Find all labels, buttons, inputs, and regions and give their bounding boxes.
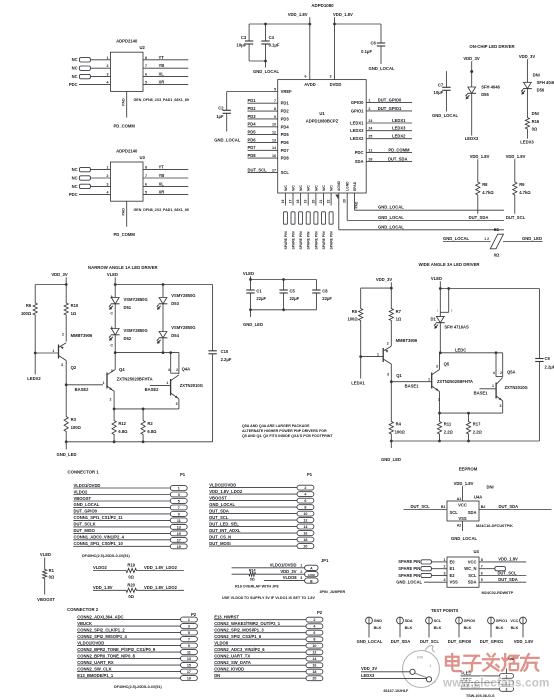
svg-text:28: 28 bbox=[368, 157, 372, 161]
svg-text:E2: E2 bbox=[450, 573, 456, 578]
svg-text:R12: R12 bbox=[118, 421, 126, 426]
photodiode array U3 ADPD2140 bbox=[69, 149, 189, 238]
svg-text:VDD_3V: VDD_3V bbox=[280, 569, 296, 574]
U1 pin 22 N/C spare bbox=[327, 185, 334, 250]
svg-text:10μF: 10μF bbox=[237, 43, 247, 48]
U1 pin 27 SCL bbox=[248, 168, 290, 176]
svg-text:4: 4 bbox=[107, 81, 109, 85]
svg-text:R7: R7 bbox=[396, 309, 402, 314]
svg-text:NC: NC bbox=[72, 57, 78, 62]
svg-text:8: 8 bbox=[481, 558, 483, 562]
P2 pin 13 CONN2_BPR0_TONE_N/P0_8 bbox=[77, 653, 197, 661]
svg-text:D56: D56 bbox=[537, 87, 545, 92]
svg-text:4.7kΩ: 4.7kΩ bbox=[482, 190, 494, 195]
P2 pin 1 CONN2_ADXL364_ADC bbox=[77, 614, 197, 622]
svg-text:CONN2_ADXL364_ADC: CONN2_ADXL364_ADC bbox=[77, 614, 123, 619]
svg-text:21: 21 bbox=[319, 200, 323, 204]
wire LEDC rail bbox=[440, 347, 503, 353]
svg-text:7: 7 bbox=[481, 565, 483, 569]
ferrite E1 0ohm GND_LOCAL-GND_LED bbox=[443, 227, 543, 257]
resistor R1 0ohm VLED to VBOOST bbox=[37, 552, 55, 602]
svg-text:5: 5 bbox=[145, 190, 147, 194]
svg-text:3: 3 bbox=[444, 572, 446, 576]
svg-text:VSMY2850G: VSMY2850G bbox=[171, 325, 195, 330]
svg-text:NC: NC bbox=[72, 167, 78, 172]
svg-text:6: 6 bbox=[313, 631, 315, 635]
svg-text:AGND: AGND bbox=[337, 180, 341, 191]
wire cap bank bottom rail bbox=[251, 309, 317, 311]
svg-text:N/C: N/C bbox=[291, 185, 295, 191]
svg-text:LEDC: LEDC bbox=[455, 347, 466, 352]
svg-text:SFH 4046: SFH 4046 bbox=[537, 80, 554, 85]
svg-text:22μF: 22μF bbox=[290, 296, 300, 301]
svg-text:DNI: DNI bbox=[487, 485, 494, 490]
svg-text:VBUCK: VBUCK bbox=[77, 621, 92, 626]
P2 pin 18 CONN2_IOVDD bbox=[214, 667, 323, 675]
svg-text:DUT_SDA: DUT_SDA bbox=[391, 639, 411, 644]
svg-text:C4: C4 bbox=[269, 35, 275, 40]
svg-text:R19: R19 bbox=[127, 563, 135, 568]
svg-text:E1: E1 bbox=[450, 566, 456, 571]
svg-text:GND_LOCAL: GND_LOCAL bbox=[432, 113, 458, 118]
svg-text:E1: E1 bbox=[494, 227, 500, 232]
P1 pin 15 DUT_MISO bbox=[73, 528, 187, 536]
svg-text:VSMY2850G: VSMY2850G bbox=[171, 293, 195, 298]
eeprom U4A M24C16 (DNI) bbox=[404, 481, 552, 541]
resistor R11 2.2ohm bbox=[437, 413, 453, 441]
P1 pin 18 DUT_CS_N bbox=[209, 534, 314, 542]
svg-text:2: 2 bbox=[313, 618, 315, 622]
svg-text:DUT_GPIO0: DUT_GPIO0 bbox=[378, 98, 402, 103]
svg-text:2.2μF: 2.2μF bbox=[221, 357, 232, 362]
svg-text:BLK: BLK bbox=[374, 626, 382, 630]
svg-text:3: 3 bbox=[107, 73, 109, 77]
svg-text:C5: C5 bbox=[290, 288, 296, 293]
svg-text:0Ω: 0Ω bbox=[532, 126, 538, 131]
svg-text:Q1: Q1 bbox=[396, 373, 402, 378]
svg-text:SPARE PIN: SPARE PIN bbox=[299, 231, 303, 250]
U1 pin 1 GPIO0 -> DUT_GPIO0 bbox=[351, 98, 412, 106]
svg-text:VDD_1.8V: VDD_1.8V bbox=[506, 154, 526, 159]
svg-text:LEDX2: LEDX2 bbox=[350, 136, 364, 141]
svg-text:GND_LED: GND_LED bbox=[381, 457, 401, 462]
P1 pin 2 VLDO1/OVDD bbox=[209, 482, 314, 490]
svg-text:26: 26 bbox=[343, 199, 347, 203]
svg-text:GND_LOCAL: GND_LOCAL bbox=[451, 536, 477, 541]
svg-text:GND_LOCAL: GND_LOCAL bbox=[357, 639, 383, 644]
svg-text:R17: R17 bbox=[473, 422, 481, 427]
transistor Q4 ZXTN25020BFHTA NPN bbox=[103, 353, 153, 409]
transistor Q5 ZXTN25020BFHTA NPN bbox=[428, 353, 473, 413]
svg-text:GPIO1: GPIO1 bbox=[496, 619, 508, 623]
svg-text:SPARE PIN: SPARE PIN bbox=[284, 231, 288, 250]
P1 pin 16 DUT_INT_ADXL bbox=[209, 528, 314, 536]
svg-text:13: 13 bbox=[272, 138, 276, 142]
svg-text:CONN2_BPR0_TONE_N/P0_8: CONN2_BPR0_TONE_N/P0_8 bbox=[77, 653, 135, 658]
svg-text:1: 1 bbox=[107, 166, 109, 170]
resistor R12 6.8ohm bbox=[112, 409, 128, 442]
svg-text:GND_LED: GND_LED bbox=[243, 322, 263, 327]
svg-text:CONN2_SPI2_CS3/P1_6: CONN2_SPI2_CS3/P1_6 bbox=[214, 634, 262, 639]
svg-text:2.2Ω: 2.2Ω bbox=[444, 430, 454, 435]
svg-text:9: 9 bbox=[188, 644, 190, 648]
ground GND_LOCAL (C3/C4) bbox=[253, 61, 279, 74]
svg-text:PD2: PD2 bbox=[248, 106, 257, 111]
svg-text:2: 2 bbox=[438, 398, 440, 402]
svg-text:20: 20 bbox=[311, 200, 315, 204]
svg-text:DVDD: DVDD bbox=[330, 82, 342, 87]
svg-text:1: 1 bbox=[166, 381, 168, 385]
svg-text:VDD_1.8V: VDD_1.8V bbox=[454, 481, 474, 486]
svg-text:VLED: VLED bbox=[431, 276, 442, 281]
svg-text:PD3: PD3 bbox=[281, 116, 290, 121]
svg-text:CONNECTOR 2: CONNECTOR 2 bbox=[67, 607, 99, 612]
svg-text:2: 2 bbox=[176, 368, 178, 372]
capacitor C2 1uF on VREF bbox=[216, 92, 231, 132]
svg-text:CONN2_BPR2_TONE_P/SPI2_CS1/P0_: CONN2_BPR2_TONE_P/SPI2_CS1/P0_9 bbox=[77, 647, 156, 652]
svg-text:ADPD2140: ADPD2140 bbox=[116, 39, 138, 44]
svg-text:DUT_SCL: DUT_SCL bbox=[209, 515, 229, 520]
svg-text:N/C: N/C bbox=[330, 185, 334, 191]
svg-text:NC: NC bbox=[72, 66, 78, 71]
jumper pads across D1 bbox=[437, 289, 453, 313]
LED D1 SFH 4716AS bbox=[431, 316, 470, 352]
svg-text:6.8Ω: 6.8Ω bbox=[118, 429, 128, 434]
svg-text:24: 24 bbox=[368, 127, 372, 131]
svg-text:2: 2 bbox=[444, 565, 446, 569]
P2 pin 14 CONN2_UART_TX bbox=[214, 654, 323, 662]
svg-text:2: 2 bbox=[107, 64, 109, 68]
svg-text:9: 9 bbox=[178, 512, 180, 516]
U1 pin 5 VREF bbox=[227, 87, 292, 94]
svg-text:ADPD1080: ADPD1080 bbox=[311, 3, 334, 8]
junction bbox=[308, 23, 311, 26]
svg-text:WC_N: WC_N bbox=[464, 566, 476, 571]
test point VCC bbox=[510, 617, 533, 644]
svg-text:PD2: PD2 bbox=[281, 109, 290, 114]
svg-text:PD6: PD6 bbox=[248, 137, 257, 142]
svg-text:0.1μF: 0.1μF bbox=[361, 49, 372, 54]
svg-text:ON-CHIP LED DRIVER: ON-CHIP LED DRIVER bbox=[469, 44, 515, 49]
LED D54 VSMY2850G bbox=[157, 325, 196, 352]
svg-text:CONN2_UART_TX: CONN2_UART_TX bbox=[214, 654, 250, 659]
svg-text:0Ω: 0Ω bbox=[494, 252, 500, 257]
P2 pin 10 VLDO8 bbox=[214, 641, 323, 649]
P1 pin 10 DUT_SDA bbox=[209, 508, 314, 516]
svg-text:100Ω: 100Ω bbox=[71, 425, 82, 430]
P1 pin 8 GND_LOCAL bbox=[209, 502, 314, 510]
svg-text:VDD_1.8V: VDD_1.8V bbox=[333, 12, 353, 17]
svg-text:BLK: BLK bbox=[405, 626, 413, 630]
svg-text:DUT_SDA: DUT_SDA bbox=[498, 577, 518, 582]
U1 pin 21 N/C spare bbox=[319, 185, 326, 250]
P1 pin 4 VDD_1.8V_LDO2 bbox=[209, 489, 314, 497]
svg-text:1: 1 bbox=[368, 99, 370, 103]
wire AGND to GND_LOCAL bbox=[339, 224, 504, 230]
svg-text:19: 19 bbox=[177, 545, 181, 549]
svg-text:14: 14 bbox=[272, 146, 276, 150]
svg-text:VLED: VLED bbox=[243, 271, 254, 276]
photodiode array U2 ADPD2140 bbox=[69, 39, 189, 129]
svg-text:YT: YT bbox=[159, 165, 165, 170]
svg-text:GND_LED: GND_LED bbox=[57, 452, 77, 457]
U1 pin 8 PD2 bbox=[248, 106, 290, 114]
U1 pin 16 PD8 bbox=[248, 153, 290, 161]
LED D52 VSMY2850G bbox=[109, 326, 148, 353]
svg-text:10μF: 10μF bbox=[434, 90, 444, 95]
svg-text:2: 2 bbox=[368, 107, 370, 111]
wire cap bottoms bbox=[249, 60, 265, 62]
svg-text:BLK: BLK bbox=[511, 626, 519, 630]
svg-text:VLED: VLED bbox=[40, 552, 51, 557]
svg-text:CONN2_SW_CLK: CONN2_SW_CLK bbox=[77, 666, 111, 671]
svg-text:10: 10 bbox=[312, 644, 316, 648]
svg-text:VDD_3V: VDD_3V bbox=[376, 277, 392, 282]
svg-text:1: 1 bbox=[52, 349, 54, 353]
svg-text:2: 2 bbox=[304, 486, 306, 490]
svg-text:VLDO8: VLDO8 bbox=[283, 575, 298, 580]
svg-text:5: 5 bbox=[274, 87, 276, 91]
svg-text:4: 4 bbox=[430, 664, 432, 668]
U1 pin 9 PD3 bbox=[248, 114, 290, 122]
wire emitter rail narrow bbox=[114, 408, 179, 410]
svg-text:5: 5 bbox=[145, 81, 147, 85]
svg-text:U4A: U4A bbox=[474, 495, 482, 500]
svg-text:1: 1 bbox=[103, 381, 105, 385]
junction BASE1 bbox=[390, 380, 393, 383]
svg-text:R9: R9 bbox=[519, 182, 525, 187]
svg-text:VLED: VLED bbox=[107, 272, 118, 277]
svg-text:DUT_MISO: DUT_MISO bbox=[74, 528, 96, 533]
svg-text:VSMY2850G: VSMY2850G bbox=[124, 297, 148, 302]
resistor R17 2.2ohm bbox=[466, 413, 482, 441]
P2 pin 7 CONN2_SPI2_MISO/P1_4 bbox=[77, 634, 197, 642]
svg-text:LEDX3: LEDX3 bbox=[520, 139, 534, 144]
svg-text:18: 18 bbox=[296, 200, 300, 204]
svg-text:100Ω: 100Ω bbox=[347, 317, 358, 322]
svg-text:www.elecfans.com: www.elecfans.com bbox=[442, 677, 550, 690]
svg-text:DNI: DNI bbox=[417, 656, 423, 660]
resistor R4 100ohm bbox=[389, 382, 405, 441]
svg-text:VREF: VREF bbox=[281, 89, 293, 94]
svg-text:VBOOST: VBOOST bbox=[37, 597, 55, 602]
U1 pin 18 N/C spare bbox=[296, 185, 303, 250]
svg-text:GND_LOCAL: GND_LOCAL bbox=[368, 66, 394, 71]
svg-text:3: 3 bbox=[111, 369, 113, 373]
resistor R5 100ohm bbox=[347, 288, 362, 357]
P1 pin 5 VBOOST bbox=[73, 496, 187, 504]
svg-text:R10: R10 bbox=[71, 303, 79, 308]
svg-text:7: 7 bbox=[145, 64, 147, 68]
P2 pin 17 CONN2_SW_CLK bbox=[77, 666, 197, 674]
svg-text:M24C16-DFCU6TP/K: M24C16-DFCU6TP/K bbox=[476, 524, 513, 528]
svg-text:8: 8 bbox=[313, 638, 315, 642]
power VDD_3V (wide) bbox=[376, 277, 392, 308]
svg-text:VCC: VCC bbox=[468, 559, 477, 564]
svg-text:SPARE PIN: SPARE PIN bbox=[398, 573, 420, 578]
svg-text:GND_LOCAL: GND_LOCAL bbox=[214, 138, 240, 143]
wire LGND to GND_LOCAL bbox=[347, 215, 504, 221]
svg-text:PD_COMM: PD_COMM bbox=[388, 147, 410, 152]
svg-text:22μF: 22μF bbox=[256, 296, 266, 301]
svg-text:MMBT3906: MMBT3906 bbox=[396, 338, 418, 343]
svg-text:VSS: VSS bbox=[450, 580, 459, 585]
net LEDX2 wire bbox=[27, 353, 41, 381]
svg-text:D53: D53 bbox=[171, 301, 179, 306]
svg-text:U3: U3 bbox=[140, 155, 146, 160]
svg-text:LEDX3: LEDX3 bbox=[392, 126, 406, 131]
svg-text:13: 13 bbox=[187, 657, 191, 661]
svg-text:ALTERNATE HIGHER POWER PNP DRI: ALTERNATE HIGHER POWER PNP DRIVERS FOR bbox=[242, 429, 327, 433]
P2 pin 4 CONN2_WAKE3/TMR2_OUT/P2_1 bbox=[214, 621, 323, 629]
svg-text:2: 2 bbox=[300, 570, 302, 574]
svg-text:GPIO1: GPIO1 bbox=[351, 108, 364, 113]
U1 pin EPAD bbox=[353, 181, 359, 210]
svg-text:PD8: PD8 bbox=[281, 156, 290, 161]
svg-text:6: 6 bbox=[304, 499, 306, 503]
svg-text:5: 5 bbox=[188, 631, 190, 635]
svg-text:SPARE PIN: SPARE PIN bbox=[398, 566, 420, 571]
svg-text:LEDX1: LEDX1 bbox=[392, 118, 406, 123]
U1 pin 24 LEDX3 -> LEDX3 bbox=[350, 126, 412, 134]
wire VLED rail wide bbox=[440, 288, 539, 290]
P1 pin 7 GND_LOCAL bbox=[73, 502, 187, 510]
svg-text:TEST POINTS: TEST POINTS bbox=[431, 608, 459, 613]
wire VLED rail bbox=[251, 279, 317, 281]
svg-text:23: 23 bbox=[368, 119, 372, 123]
svg-text:1Ω: 1Ω bbox=[71, 311, 77, 316]
svg-text:NC: NC bbox=[72, 184, 78, 189]
svg-text:1Ω: 1Ω bbox=[396, 317, 402, 322]
svg-text:16: 16 bbox=[281, 200, 285, 204]
svg-text:BLK: BLK bbox=[496, 626, 504, 630]
svg-text:1: 1 bbox=[377, 352, 379, 356]
svg-text:VDD_1.8V: VDD_1.8V bbox=[288, 12, 308, 17]
svg-text:VLDO2: VLDO2 bbox=[93, 565, 108, 570]
power VLED (cap bank) bbox=[243, 271, 254, 290]
svg-text:VLDO1/OVDD: VLDO1/OVDD bbox=[209, 482, 236, 487]
wire LED cathode rail bbox=[115, 352, 179, 354]
capacitor C4 0.1uF bbox=[261, 24, 280, 61]
svg-text:VCC: VCC bbox=[458, 502, 467, 507]
svg-text:VDD_3V: VDD_3V bbox=[51, 272, 67, 277]
svg-text:4: 4 bbox=[107, 190, 109, 194]
svg-text:ZXTN25020BFHTA: ZXTN25020BFHTA bbox=[437, 379, 473, 384]
svg-text:VLDO1/OVDD: VLDO1/OVDD bbox=[74, 483, 101, 488]
svg-text:6: 6 bbox=[145, 182, 147, 186]
svg-text:1 2: 1 2 bbox=[484, 237, 489, 241]
svg-text:DUT_SCL: DUT_SCL bbox=[506, 215, 526, 220]
svg-text:DUT_INT_ADXL: DUT_INT_ADXL bbox=[209, 528, 241, 533]
svg-text:6.8Ω: 6.8Ω bbox=[147, 429, 157, 434]
resistor R19 0ohm VLDO2 to VDD_1.8V_LDO2 bbox=[93, 563, 184, 580]
svg-text:8: 8 bbox=[145, 166, 147, 170]
svg-text:B1: B1 bbox=[441, 505, 446, 509]
svg-text:3: 3 bbox=[330, 75, 332, 79]
svg-text:12: 12 bbox=[312, 651, 316, 655]
svg-text:PD1: PD1 bbox=[248, 98, 257, 103]
svg-text:PD6: PD6 bbox=[281, 140, 290, 145]
svg-text:PD_COMM: PD_COMM bbox=[114, 123, 136, 128]
svg-text:19: 19 bbox=[187, 677, 191, 681]
P2 pin 16 CONN2_SW_DATA bbox=[214, 660, 323, 668]
svg-text:VDD_1.8V: VDD_1.8V bbox=[498, 557, 518, 562]
capacitor C7 10uF bbox=[434, 71, 451, 111]
svg-text:VSS: VSS bbox=[458, 516, 467, 521]
svg-text:CONN1_ADC0_VIN1/P2_4: CONN1_ADC0_VIN1/P2_4 bbox=[74, 535, 125, 540]
capacitor C6 0.1uF bbox=[361, 24, 385, 64]
svg-text:VDD_3V: VDD_3V bbox=[463, 56, 479, 61]
svg-text:27: 27 bbox=[272, 169, 276, 173]
svg-text:4: 4 bbox=[444, 578, 446, 582]
svg-text:PDC: PDC bbox=[69, 82, 78, 87]
svg-text:C2: C2 bbox=[218, 105, 224, 110]
svg-text:16: 16 bbox=[303, 532, 307, 536]
power VDD_3V (D56) bbox=[519, 54, 535, 83]
capacitor C10 2.2uF bbox=[208, 285, 231, 442]
svg-text:C9: C9 bbox=[545, 356, 551, 361]
P1 pin 11 CONN1_SPI1_CS1/P2_11 bbox=[73, 515, 187, 523]
svg-text:YB: YB bbox=[159, 63, 165, 68]
svg-text:R20: R20 bbox=[127, 582, 135, 587]
svg-text:SCL: SCL bbox=[468, 573, 477, 578]
svg-text:17: 17 bbox=[177, 538, 181, 542]
svg-text:R6: R6 bbox=[26, 303, 32, 308]
resistor R3 100ohm bbox=[64, 385, 81, 442]
svg-text:16: 16 bbox=[312, 664, 316, 668]
svg-text:VDD_3V: VDD_3V bbox=[361, 666, 377, 671]
svg-text:2: 2 bbox=[107, 174, 109, 178]
svg-text:C8: C8 bbox=[322, 288, 328, 293]
svg-text:EEPROM: EEPROM bbox=[459, 466, 478, 471]
resistor R6 100ohm bbox=[21, 285, 37, 354]
svg-text:C6: C6 bbox=[371, 40, 377, 45]
test point SDA bbox=[391, 617, 413, 644]
svg-text:GND_LOCAL: GND_LOCAL bbox=[209, 502, 235, 507]
capacitor C5 22uF bbox=[279, 280, 299, 310]
svg-text:20: 20 bbox=[312, 677, 316, 681]
wire BASE2 bbox=[66, 385, 103, 392]
svg-text:DUT_SDA: DUT_SDA bbox=[499, 504, 519, 509]
test point GPIO1 bbox=[480, 617, 507, 644]
svg-text:4: 4 bbox=[493, 371, 495, 375]
junction Q1 base bbox=[359, 355, 362, 358]
P1 pin 12 DUT_SCL bbox=[209, 515, 314, 523]
svg-text:WIDE ANGLE 3A LED DRIVER: WIDE ANGLE 3A LED DRIVER bbox=[419, 262, 481, 267]
transistor Q2 MMBT3906 PNP bbox=[35, 332, 93, 385]
svg-text:LEDX2: LEDX2 bbox=[27, 376, 41, 381]
svg-text:PD7: PD7 bbox=[248, 145, 257, 150]
P2 pin 2 E13_HWRST bbox=[214, 615, 323, 623]
svg-text:R11: R11 bbox=[444, 422, 452, 427]
svg-text:CONN2_SPI2_CLK/P1_2: CONN2_SPI2_CLK/P1_2 bbox=[77, 627, 125, 632]
svg-text:100Ω: 100Ω bbox=[21, 311, 32, 316]
svg-text:DUT_GPIO1: DUT_GPIO1 bbox=[378, 106, 402, 111]
wire DVDD rail bbox=[335, 23, 382, 25]
svg-text:P2: P2 bbox=[191, 612, 197, 617]
svg-text:0.1μF: 0.1μF bbox=[269, 43, 280, 48]
P1 pin 13 DUT_SCLK bbox=[73, 522, 187, 530]
svg-text:6: 6 bbox=[145, 73, 147, 77]
svg-text:VDD_1.8V_LDO2: VDD_1.8V_LDO2 bbox=[144, 585, 178, 590]
resistor R16 0ohm DNI bbox=[525, 111, 540, 139]
svg-text:SDA: SDA bbox=[355, 159, 364, 164]
svg-text:A2: A2 bbox=[457, 524, 462, 528]
U1 pin 10 PD4 bbox=[248, 122, 290, 130]
svg-text:VLDO8: VLDO8 bbox=[214, 641, 229, 646]
svg-text:3: 3 bbox=[107, 182, 109, 186]
svg-text:VBOOST: VBOOST bbox=[209, 495, 227, 500]
